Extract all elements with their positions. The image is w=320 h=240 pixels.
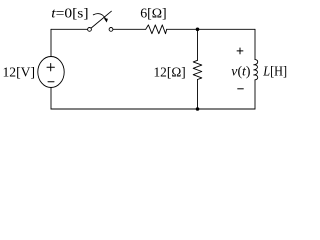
svg-text:12[Ω]: 12[Ω] xyxy=(154,65,186,80)
wire top-left horizontal (corner to switch) xyxy=(51,28,88,30)
junction node top xyxy=(196,28,200,32)
wire resistor R1 to top-right corner xyxy=(167,28,255,30)
junction node bottom xyxy=(196,107,200,111)
svg-text:t=0[s]: t=0[s] xyxy=(51,6,88,21)
svg-text:12[V]: 12[V] xyxy=(3,65,36,80)
wire left vertical below source V1 xyxy=(50,88,52,110)
resistor R1 6-ohm zigzag xyxy=(146,25,167,34)
wire left vertical above source V1 xyxy=(50,29,52,56)
switch SW1 blade xyxy=(91,11,111,28)
wire bottom horizontal xyxy=(51,108,255,110)
wire middle branch above resistor R2 xyxy=(197,29,199,60)
switch SW1 arrowhead xyxy=(104,18,108,22)
source V1 plus sign xyxy=(47,64,54,71)
wire middle branch below resistor R2 xyxy=(197,80,199,110)
voltage source V1 ellipse xyxy=(38,57,64,88)
resistor R2 12-ohm zigzag xyxy=(193,60,202,79)
source V1 minus sign xyxy=(48,81,54,83)
switch SW1 left contact xyxy=(88,28,92,32)
inductor plus sign xyxy=(237,48,244,55)
wire right vertical above inductor L1 xyxy=(254,29,256,59)
wire switch to resistor R1 xyxy=(113,28,146,30)
wire right vertical below inductor L1 xyxy=(254,80,256,109)
switch SW1 closing arrow xyxy=(93,14,106,20)
inductor L1 coil xyxy=(254,60,258,80)
svg-text:v(t): v(t) xyxy=(231,64,251,79)
svg-text:L[H]: L[H] xyxy=(262,64,287,79)
switch SW1 right contact xyxy=(109,28,113,32)
svg-text:6[Ω]: 6[Ω] xyxy=(140,6,167,21)
inductor minus sign xyxy=(237,88,243,90)
